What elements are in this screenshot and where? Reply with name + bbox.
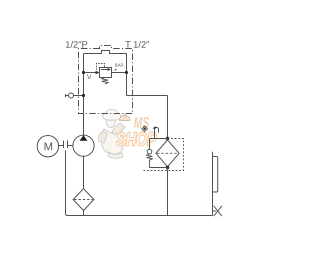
svg-text:BAR: BAR [115,63,124,68]
svg-text:T 1/2": T 1/2" [125,40,149,50]
bypass check valve spring [147,154,153,168]
svg-text:M: M [44,141,53,153]
svg-text:SHOP: SHOP [116,129,157,149]
relief valve internal arrow [101,69,108,71]
T line junction node [166,137,169,140]
clogging indicator arc [155,127,159,138]
relief valve spring [102,78,108,84]
svg-text:V: V [87,74,92,81]
bypass check valve ball [149,139,151,150]
watermark chef figure [99,109,131,158]
node on P line at gauge [82,94,85,97]
indicator diamond [142,126,148,132]
return filter F1 [156,140,179,167]
tiny arrow under BAR [115,69,117,71]
wire P line to relief valve inlet [84,72,100,74]
node below filter [166,166,169,169]
wire T line drop inside manifold [126,54,128,96]
enclosure (manifold) dash-dot box with top bump [79,46,133,114]
level gauge riser wire [212,152,214,216]
relief valve pilot line (dashed) [97,64,105,73]
suction strainer [73,189,94,211]
bypass bottom wire [150,167,168,169]
wire T line down to filter inlet [167,96,169,139]
bypass branch top wire [150,138,168,140]
wire P line pump to port [83,54,85,136]
wire T line horizontal to filter [127,95,168,97]
tank bottom wire [67,215,213,217]
wire pump suction [83,156,85,188]
motor M1 [37,136,58,157]
wire manifold top edge with port bump [84,51,127,54]
return wire to tank [167,168,169,216]
pump P1 [73,135,94,156]
pump flow triangle [80,135,88,140]
plugged drain port X [213,210,217,212]
relief valve V body [100,68,112,78]
node: branch on P line [82,71,85,74]
wire strainer to tank line [83,211,85,216]
node: pilot tap [95,71,98,74]
case drain wire from coupling [66,150,68,215]
level gauge [213,157,218,193]
coupling [59,141,73,149]
filter assembly dashed enclosure [144,139,184,171]
svg-text:1/2"P: 1/2"P [65,40,87,50]
wire relief valve outlet to T line [112,72,127,74]
node: branch on T line [125,71,128,74]
measuring point (tick-circle) [66,94,84,97]
